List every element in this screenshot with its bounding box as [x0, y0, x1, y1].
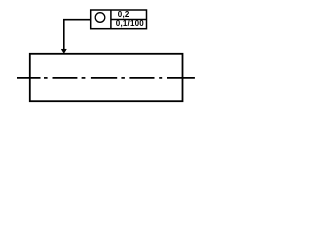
leader wire: [64, 20, 91, 50]
svg-text:0,2: 0,2: [118, 10, 130, 19]
frame divider horizontal: [111, 19, 147, 21]
leader arrowhead: [61, 49, 66, 53]
centerline: [17, 77, 195, 79]
roundness symbol circle: [95, 13, 105, 23]
frame divider vertical: [110, 10, 112, 29]
tolerance frame outer box: [91, 10, 147, 29]
part outline: [30, 54, 183, 101]
svg-text:0,1/100: 0,1/100: [116, 19, 144, 28]
